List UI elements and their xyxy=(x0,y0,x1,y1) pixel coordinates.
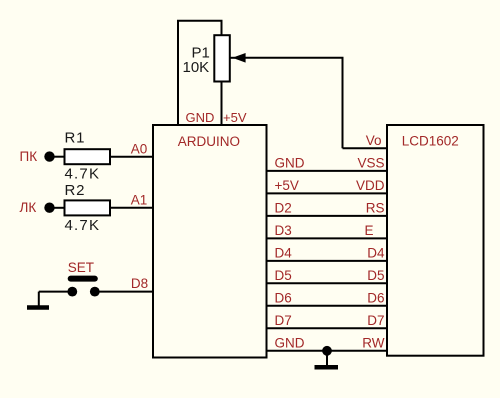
wire: D6 to D6 xyxy=(267,305,388,307)
wire: D2 to RS xyxy=(267,215,388,217)
wire: GND to VSS xyxy=(267,170,388,172)
pushbutton SET left contact xyxy=(67,287,77,297)
wire: D5 to D5 xyxy=(267,282,388,284)
terminal dot ЛК xyxy=(44,203,54,213)
wire: wiper vertical run down xyxy=(342,58,344,149)
svg-text:VDD: VDD xyxy=(356,178,385,193)
svg-text:D6: D6 xyxy=(275,291,292,306)
wire: GND lead from pot top loop down to ARDUINO xyxy=(177,21,179,125)
svg-text:ARDUINO: ARDUINO xyxy=(178,134,240,149)
resistor R1 body xyxy=(65,149,111,164)
svg-text:4.7K: 4.7K xyxy=(65,166,101,183)
svg-text:GND: GND xyxy=(275,156,305,171)
svg-text:R1: R1 xyxy=(65,129,86,146)
svg-text:SET: SET xyxy=(68,260,94,275)
wire: +5V to VDD xyxy=(267,192,388,194)
resistor R2 body xyxy=(65,200,111,215)
block U1 ARDUINO box xyxy=(153,125,267,358)
pot wiper arrowhead xyxy=(232,53,245,63)
potentiometer P1 body xyxy=(214,35,230,81)
svg-text:VSS: VSS xyxy=(357,156,384,171)
svg-text:D4: D4 xyxy=(367,246,385,261)
wire: R2 to ARDUINO A1 xyxy=(110,207,154,209)
svg-text:D5: D5 xyxy=(367,268,384,283)
svg-text:+5V: +5V xyxy=(223,110,247,125)
svg-text:RS: RS xyxy=(366,201,385,216)
svg-text:D4: D4 xyxy=(275,246,293,261)
wire: D7 to D7 xyxy=(267,327,388,329)
svg-text:RW: RW xyxy=(362,336,385,351)
wire: D3 to E xyxy=(267,237,388,239)
wire: Vo wire into LCD xyxy=(343,147,388,149)
ground (SET button) xyxy=(27,305,49,310)
svg-text:GND: GND xyxy=(275,336,305,351)
wire: ПК dot to R1 xyxy=(50,156,66,158)
wire: D4 to D4 xyxy=(267,260,388,262)
svg-text:D8: D8 xyxy=(131,276,148,291)
wire: pot P1 bottom lead to ARDUINO +5V xyxy=(221,81,223,126)
wire: R1 to ARDUINO A0 xyxy=(110,156,154,158)
wire: GND to RW xyxy=(267,350,388,352)
svg-text:4.7K: 4.7K xyxy=(65,217,101,234)
wire: ЛК dot to R2 xyxy=(50,207,66,209)
svg-text:ЛК: ЛК xyxy=(20,200,37,215)
wire: junction to ground xyxy=(326,351,328,366)
svg-text:R2: R2 xyxy=(65,182,86,199)
svg-text:D6: D6 xyxy=(367,291,384,306)
wire: wiper stub at pot xyxy=(230,57,236,59)
wire: ground drop xyxy=(38,292,40,306)
svg-text:Vo: Vo xyxy=(366,133,382,148)
svg-text:10K: 10K xyxy=(183,59,210,76)
ground (RW wire) xyxy=(315,365,339,370)
block LCD1602 box xyxy=(387,125,484,356)
svg-text:A1: A1 xyxy=(131,193,148,208)
svg-text:D7: D7 xyxy=(367,313,384,328)
pushbutton SET right contact xyxy=(90,287,100,297)
wire: SET right contact to ARDUINO D8 xyxy=(95,291,154,293)
wire: pot P1 top lead xyxy=(221,21,223,37)
wire: SET left contact to ground xyxy=(39,291,72,293)
junction dot on RW wire xyxy=(322,346,332,356)
svg-text:E: E xyxy=(364,223,373,238)
terminal dot ПК xyxy=(44,151,54,161)
svg-text:D5: D5 xyxy=(275,268,292,283)
svg-text:LCD1602: LCD1602 xyxy=(402,134,459,149)
svg-text:D2: D2 xyxy=(275,201,292,216)
svg-text:+5V: +5V xyxy=(275,178,299,193)
svg-text:A0: A0 xyxy=(131,142,148,157)
pushbutton SET actuator bar xyxy=(71,276,95,282)
wire: top horizontal of pot loop xyxy=(177,20,223,22)
svg-text:GND: GND xyxy=(186,110,215,125)
wire: wiper horizontal run xyxy=(243,57,344,59)
svg-text:ПК: ПК xyxy=(20,149,38,164)
svg-text:D3: D3 xyxy=(275,223,292,238)
svg-text:D7: D7 xyxy=(275,313,292,328)
